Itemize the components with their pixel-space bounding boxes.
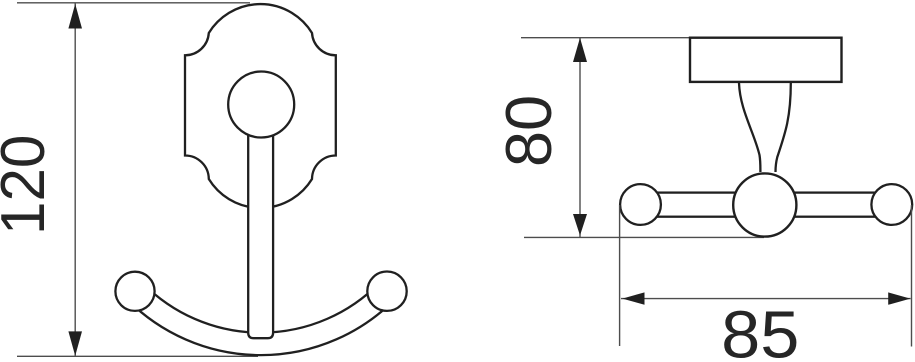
arrowhead 80 top: [573, 38, 587, 62]
central ball (side view): [733, 173, 796, 236]
hook arm band (front view) outer: [135, 291, 387, 344]
arrowhead 85 left: [622, 292, 644, 304]
dimension extension line top-left (120 top): [17, 2, 250, 4]
dimension extension line right (85): [911, 205, 913, 347]
right ball end (front view): [367, 272, 406, 311]
arrowhead 80 bottom: [573, 214, 587, 236]
dimension extension line bottom-left (120 bottom): [17, 355, 258, 357]
dimension line 80: [579, 38, 581, 237]
svg-text:120: 120: [0, 135, 57, 235]
center knob circle (front view): [228, 72, 294, 138]
stem (front view): [248, 104, 273, 338]
backplate shield (front view): [185, 4, 336, 208]
left ball end (front view): [115, 272, 154, 311]
dimension extension line bottom-right (80 bottom): [524, 236, 764, 238]
right end circle (side view): [871, 184, 912, 225]
dimension extension line left (85): [619, 205, 621, 346]
hook arm band (front view) inner white: [135, 291, 387, 344]
curved stem left edge (side view): [739, 83, 760, 172]
arrowhead 85 right: [888, 292, 910, 304]
svg-text:80: 80: [492, 95, 565, 167]
horizontal bar (side view): [641, 193, 892, 217]
dimension line 120: [74, 3, 76, 356]
arrowhead 120 bottom: [68, 331, 82, 356]
wall plate rectangle (side view): [690, 38, 842, 82]
curved stem right edge (side view): [776, 83, 791, 172]
svg-text:85: 85: [721, 297, 799, 362]
dimension line 85: [621, 298, 911, 300]
arrowhead 120 top: [68, 4, 82, 29]
dimension extension line top-right (80 top): [521, 37, 691, 39]
left end circle (side view): [620, 184, 661, 225]
